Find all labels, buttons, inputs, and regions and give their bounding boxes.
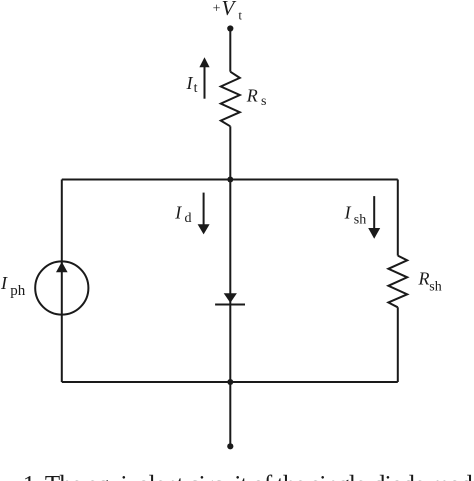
- node junction dot (bottom bus / diode branch): [227, 379, 233, 385]
- wire: diode branch vertical (node to diode): [229, 180, 231, 305]
- resistor Rsh: [388, 256, 407, 308]
- node junction dot (top bus / diode branch): [227, 177, 233, 183]
- label Rsh: [418, 269, 442, 295]
- wire: diode to bottom bus: [229, 305, 231, 383]
- current source Iph (circle): [35, 261, 88, 314]
- wire: top bus: [62, 179, 398, 181]
- svg-text:1. The equivalent circuit of t: 1. The equivalent circuit of the single-…: [23, 472, 474, 481]
- label Iph: [0, 273, 26, 299]
- svg-text:R: R: [246, 85, 258, 105]
- svg-text:I: I: [344, 203, 352, 223]
- svg-text:d: d: [185, 211, 192, 226]
- terminal dot (bottom): [227, 443, 233, 449]
- svg-text:s: s: [261, 94, 266, 109]
- terminal dot +Vt (top): [227, 25, 233, 31]
- current arrow Ish (down): [368, 196, 380, 239]
- svg-text:sh: sh: [354, 213, 366, 228]
- wire: bottom bus: [62, 381, 398, 383]
- current arrow It (up): [199, 57, 209, 98]
- svg-text:t: t: [194, 81, 198, 96]
- wire: left branch vertical: [61, 180, 63, 383]
- label Rs: [246, 85, 267, 109]
- resistor Rs: [221, 72, 240, 127]
- diode D cathode bar: [215, 304, 245, 306]
- label Ish: [344, 203, 367, 228]
- label +Vt: [213, 0, 243, 23]
- wire: top terminal to Rs: [229, 29, 231, 72]
- wire: Rsh to bottom bus: [397, 307, 399, 382]
- svg-text:ph: ph: [10, 283, 25, 299]
- wire: right branch vertical (top): [397, 180, 399, 256]
- current source Iph arrowhead: [56, 262, 68, 273]
- current arrow Id (down): [198, 193, 210, 235]
- svg-text:sh: sh: [429, 279, 441, 294]
- svg-text:+: +: [213, 2, 221, 17]
- svg-text:t: t: [238, 8, 242, 23]
- label It: [186, 73, 198, 96]
- svg-text:I: I: [186, 73, 194, 93]
- wire: bottom bus to bottom terminal: [229, 382, 231, 444]
- svg-text:R: R: [418, 269, 430, 289]
- svg-text:V: V: [222, 0, 237, 20]
- diode D triangle: [224, 293, 237, 303]
- label Id: [174, 203, 191, 226]
- wire: Rs to top node: [229, 126, 231, 179]
- svg-text:I: I: [174, 203, 182, 223]
- svg-text:I: I: [0, 273, 8, 293]
